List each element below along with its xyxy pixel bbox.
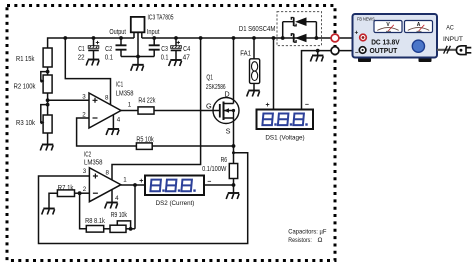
PSU bench power supply unit [353,14,438,62]
svg-text:8: 8 [105,95,109,102]
svg-text:D: D [224,89,229,98]
AC input cord and plug [437,46,471,55]
svg-text:R5 10k: R5 10k [136,135,154,144]
wire pin2 junction down to R8 [80,193,87,229]
wire IC1 pin4 [112,115,114,129]
svg-text:IC3 TA7805: IC3 TA7805 [148,12,174,21]
regulator IC3 TA7805 body [131,17,145,32]
svg-text:+: + [139,178,143,185]
wire IC2 output to DS2 [121,184,145,186]
svg-text:R1 15k: R1 15k [16,54,35,63]
wire DS2 minus to R6 bottom [204,184,234,186]
wire R9 right lead [126,228,135,230]
wire diode parallel left [282,22,284,38]
resistor R4 [138,107,154,114]
svg-text:S: S [226,126,231,135]
wire C2-C3 ground bus [121,57,154,65]
svg-text:8: 8 [105,169,109,176]
svg-text:+: + [355,30,359,37]
svg-text:–: – [355,49,359,56]
display DS2 ammeter [145,176,204,196]
svg-text:Output: Output [109,27,126,36]
wire R9 wiper bracket [117,221,130,229]
capacitor C2 [116,45,127,49]
svg-text:+: + [265,102,269,109]
resistor R9 (trimmer) [110,225,126,232]
wire IC2 pin4 [111,190,113,203]
wire left rail 5V [48,38,134,48]
svg-text:–: – [207,178,211,185]
svg-text:R7 1k: R7 1k [58,183,74,192]
resistor R3 (trimmer) [41,115,52,133]
wire DS1 plus [273,38,275,110]
wire R1-R2 segment [47,67,49,75]
svg-text:1: 1 [128,102,132,109]
op-amp IC2 LM358 [89,168,121,202]
svg-text:D1 S60SC4M: D1 S60SC4M [239,24,275,33]
svg-text:2: 2 [82,112,86,119]
wire Q1 drain [233,38,235,104]
wire diode parallel right [315,22,317,38]
wire IC1 pin3 input [48,99,89,101]
wire IC3 input pin [141,32,143,38]
resistor R6 shunt [229,164,237,179]
svg-text:R3 10k: R3 10k [16,118,35,127]
resistor R8 [86,226,103,233]
svg-text:OUTPUT: OUTPUT [370,46,398,55]
wire IC1 pin8 supply [65,38,110,105]
svg-text:–: – [305,102,309,109]
svg-text:A: A [417,22,421,28]
wire IC1 pin2 feedback loop [77,118,137,146]
svg-text:LM358: LM358 [84,157,103,166]
svg-text:R4 22k: R4 22k [138,95,155,104]
svg-text:DS1 (Voltage): DS1 (Voltage) [265,135,304,142]
wire R2-R3 segment [47,93,49,115]
svg-text:3: 3 [82,94,86,101]
diode D1 upper element [283,17,317,26]
svg-text:4: 4 [117,117,121,124]
wire R7 left to ground [49,193,57,208]
svg-text:Input: Input [147,27,160,36]
wire FA1 bottom lead [253,83,255,90]
svg-text:3: 3 [83,168,87,175]
resistor R7 [57,190,74,197]
svg-text:2: 2 [83,186,87,193]
svg-text:2SK2586: 2SK2586 [206,82,226,91]
svg-text:Resistors:: Resistors: [288,237,312,244]
svg-text:1: 1 [123,177,127,184]
svg-text:R6: R6 [221,155,228,164]
wire C4 leads [175,38,177,60]
fuse FA1 [250,59,260,84]
display DS1 voltmeter [257,110,314,130]
wire IC3 output pin [133,32,135,38]
wire C3 leads [153,38,155,57]
svg-text:FA1: FA1 [240,49,251,58]
svg-text:IC1: IC1 [116,79,123,88]
node plus output terminal [331,34,339,42]
svg-text:0.1: 0.1 [105,52,113,61]
wire Q1 source [233,118,235,146]
svg-text:47: 47 [183,52,190,61]
wire kelvin sense loop to IC2 pin3 [39,153,248,244]
svg-text:INPUT: INPUT [443,36,463,43]
svg-text:LM358: LM358 [116,88,134,97]
resistor R5 [136,143,152,150]
svg-text:Capacitors: µF: Capacitors: µF [288,229,326,236]
node minus output terminal [331,47,339,55]
wire plus terminal to PSU [339,37,360,39]
svg-text:0.1/100W: 0.1/100W [202,164,226,173]
svg-text:4: 4 [115,195,119,202]
wire rail drop to IC2 pin8 [112,38,201,180]
transistor Q1 2SK2586 MOSFET [213,98,239,124]
dotted border frame [7,6,335,261]
wire R4 to Q1 gate [154,110,220,112]
svg-text:G: G [206,102,212,111]
svg-text:AC: AC [446,25,454,32]
svg-text:22: 22 [78,52,85,61]
svg-text:R8 8.1k: R8 8.1k [85,216,105,225]
wire minus ground stem [317,51,319,56]
wire R3 to ground [47,133,49,145]
wire DS1 minus to output minus [302,51,332,110]
wire minus terminal to PSU [339,50,360,52]
wire C2 leads [120,38,122,57]
wire R5 to source node [152,145,233,147]
svg-text:DS2 (Current): DS2 (Current) [156,200,195,207]
svg-text:R2 100k: R2 100k [14,82,36,91]
diode D1 dual schottky dashed box [277,12,322,46]
capacitor C3 [149,45,160,49]
wire IC2 pin2 [75,192,90,194]
capacitor C4 electrolytic [171,41,182,51]
capacitor C1 electrolytic [88,41,99,51]
wire FA1 top lead [253,38,255,59]
wire R2 wiper bracket [41,72,48,81]
svg-text:R9 10k: R9 10k [111,210,128,219]
svg-text:FB NEWS: FB NEWS [357,17,375,22]
wire R3 wiper bracket [41,105,48,123]
wire right rail 13.8V [142,37,331,39]
diode D1 lower element [291,34,306,43]
ground symbols [40,145,53,151]
wire IC1 output to R4 [121,110,138,112]
wire R6 top lead [233,146,235,164]
wire R6 bottom lead [233,179,235,194]
svg-text:0.1: 0.1 [161,52,169,61]
op-amp IC1 LM358 [89,93,121,128]
resistor R2 (trimmer) [41,75,52,93]
wire IC2 output feedback drop [134,185,136,229]
wire C1 leads [93,38,95,60]
resistor R1 [43,48,52,67]
svg-text:Q1: Q1 [206,73,213,82]
wire IC3 ground pin [137,32,139,57]
svg-text:Ω: Ω [318,237,323,244]
wire R8-R9 segment [104,228,110,230]
